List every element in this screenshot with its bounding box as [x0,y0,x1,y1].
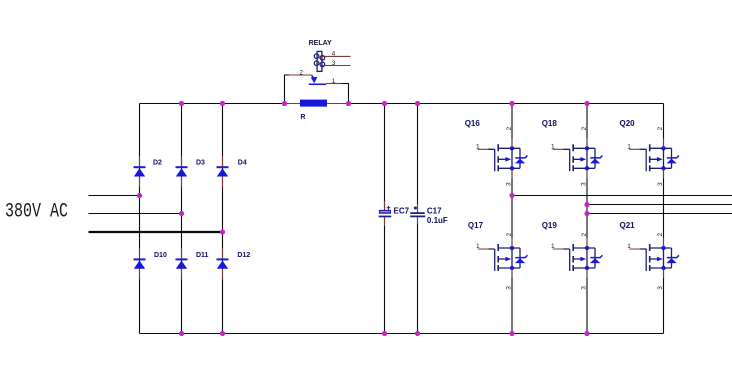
junction: bottom rail / EC7 [382,331,387,336]
svg-text:3: 3 [506,286,513,290]
junction: top rail / Q16 leg [509,101,514,106]
wire: inverter output phase U [512,195,732,197]
wire: rectifier column 3 vertical [222,104,224,334]
relay pin 3 stub wire [322,65,351,67]
junction: phase W node [584,211,589,216]
transistor Q19 [542,221,603,278]
wire: AC input phase line 2 [89,213,182,215]
svg-text:2: 2 [299,69,303,76]
svg-text:Q16: Q16 [465,119,481,128]
transistor Q20 [620,119,679,178]
svg-text:RELAY: RELAY [309,40,332,47]
svg-text:3: 3 [506,182,513,186]
relay pin 4 stub wire [322,55,351,57]
junction: top rail / C17 [415,101,420,106]
svg-text:4: 4 [332,51,336,58]
svg-text:1: 1 [476,243,480,250]
svg-text:Q18: Q18 [542,119,558,128]
svg-text:D4: D4 [238,159,247,166]
wire: rectifier column 2 vertical [181,104,183,334]
wire: C17 column lower [417,216,419,334]
junction: top rail / col2 [179,101,184,106]
svg-text:380V AC: 380V AC [5,201,68,224]
diode D4 [217,156,247,187]
svg-text:1: 1 [551,143,555,150]
wire: bottom DC bus rail [140,333,664,335]
transistor Q18 [542,119,603,178]
wire: relay pin1 lead [326,83,342,85]
diode D3 [176,156,206,187]
capacitor EC7 [379,201,410,226]
svg-text:3: 3 [581,182,588,186]
svg-text:D12: D12 [237,252,250,259]
junction: phase U node [509,193,514,198]
junction: bottom rail / C17 [415,331,420,336]
wire: Q20/Q21 leg vertical [663,104,665,334]
wire: inverter output phase W [587,213,732,215]
svg-text:R: R [300,114,305,121]
wire: AC input phase line 1 [89,195,140,197]
svg-text:D10: D10 [154,252,167,259]
wire: rectifier column 1 vertical [139,104,141,334]
diode D12 [217,248,251,279]
wire: Q16/Q17 leg vertical [511,104,513,334]
wire: relay pin1 branch [341,84,349,104]
svg-text:1: 1 [551,243,555,250]
diode D10 [134,248,167,279]
junction: bottom rail / Q19 leg [584,331,589,336]
diode D2 [134,156,163,187]
svg-text:1: 1 [476,143,480,150]
svg-text:2: 2 [581,127,588,131]
wire: relay pin2 lead [289,74,312,76]
svg-text:3: 3 [657,182,664,186]
relay RELAY [309,40,332,84]
junction: phase V node [584,202,589,207]
transistor Q21 [620,221,679,278]
capacitor C17 [410,204,448,225]
svg-text:1: 1 [627,243,631,250]
junction: bottom rail / col2 [179,331,184,336]
svg-text:Q17: Q17 [468,221,484,230]
junction: top rail / EC7 [382,101,387,106]
svg-text:Q21: Q21 [620,221,636,230]
junction: top rail / relay pin2 branch [282,101,287,106]
wire: C17 column upper [417,104,419,213]
svg-text:Q19: Q19 [542,221,558,230]
svg-text:2: 2 [506,127,513,131]
svg-text:EC7: EC7 [394,207,410,216]
svg-text:Q20: Q20 [620,119,636,128]
junction: top rail / col3 [220,101,225,106]
svg-text:2: 2 [657,233,664,237]
junction: top rail / relay pin1 branch [346,101,351,106]
svg-text:0.1uF: 0.1uF [427,216,448,225]
svg-text:D3: D3 [196,159,205,166]
svg-text:3: 3 [657,286,664,290]
wire: Q18/Q19 leg vertical [586,104,588,334]
resistor R [285,100,348,121]
svg-text:D2: D2 [153,159,162,166]
diode D11 [176,248,209,279]
svg-text:2: 2 [506,233,513,237]
wire: AC input phase line 3 (thick) [89,231,223,233]
wire: relay pin2 branch [285,75,291,104]
junction: bottom rail / col3 [220,331,225,336]
transistor Q17 [468,221,528,278]
junction: bottom rail / Q17 leg [509,331,514,336]
junction: AC line1 / col1 [137,193,142,198]
junction: top rail / Q18 leg [584,101,589,106]
transistor Q16 [465,119,528,178]
svg-text:1: 1 [332,78,336,85]
svg-text:D11: D11 [196,252,209,259]
wire: inverter output phase V [587,204,732,206]
svg-text:1: 1 [627,143,631,150]
wire: EC7 column upper [384,104,386,211]
svg-text:C17: C17 [427,207,442,216]
svg-text:2: 2 [657,127,664,131]
junction: AC line3 / col3 [220,229,225,234]
svg-text:2: 2 [581,233,588,237]
svg-text:3: 3 [581,286,588,290]
wire: top DC bus rail [140,103,664,105]
junction: AC line2 / col2 [179,211,184,216]
wire: EC7 column lower [384,217,386,334]
svg-text:3: 3 [332,60,336,67]
